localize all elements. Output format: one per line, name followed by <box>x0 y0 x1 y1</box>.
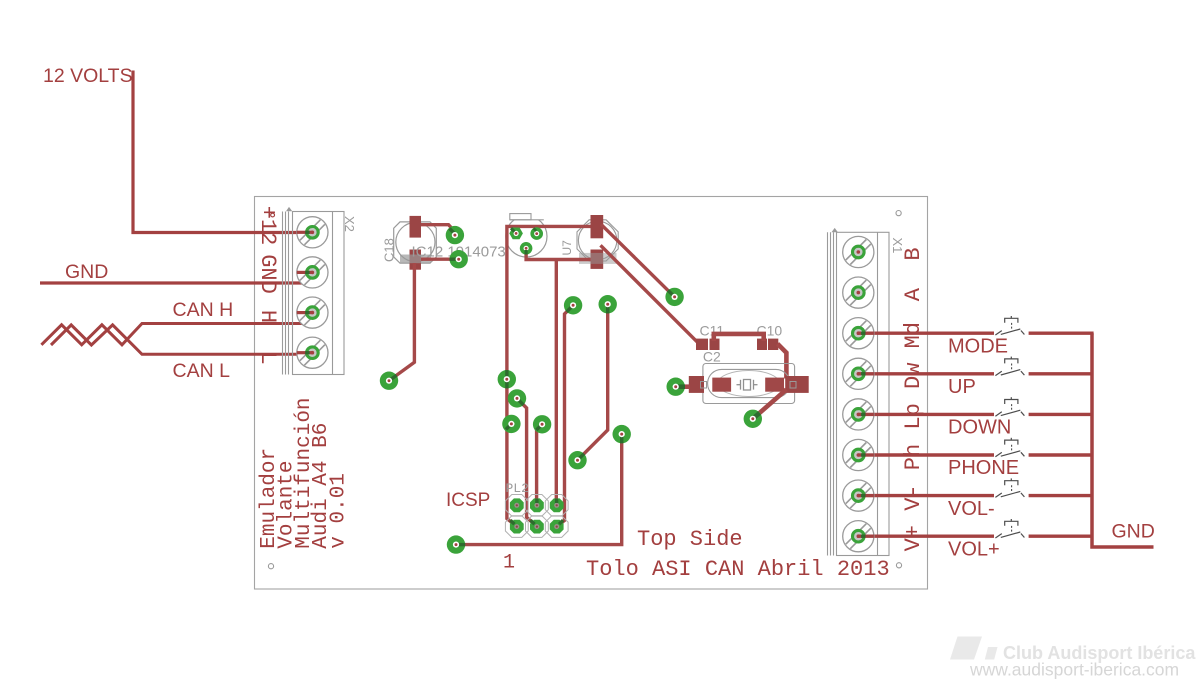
svg-text:C18: C18 <box>382 238 397 262</box>
svg-text:UP: UP <box>948 376 976 398</box>
svg-text:Md: Md <box>901 322 926 348</box>
transistor Q1 (1914073) outline <box>498 209 554 257</box>
svg-text:ICSP: ICSP <box>446 490 490 511</box>
wire MODE <box>858 332 994 335</box>
wire DOWN <box>858 413 994 416</box>
svg-text:B: B <box>901 247 926 260</box>
screw X2 pin 1 <box>297 217 328 248</box>
via V7 <box>564 296 582 314</box>
header PL2 (ICSP) <box>446 481 568 575</box>
screw X1 pin 6 <box>843 439 874 470</box>
via V11 <box>613 425 631 443</box>
trace via to ICSP bottom right <box>557 305 573 526</box>
trace U7 diagonal to C11 <box>601 245 698 342</box>
board outline <box>255 197 928 590</box>
trace Q1 bottom to U7 bottom <box>526 248 590 259</box>
trace via to C2 right diagonal <box>753 390 787 419</box>
terminal screws X2 <box>297 217 328 369</box>
hole bottom left <box>268 564 273 569</box>
svg-text:A: A <box>901 287 926 301</box>
svg-text:V+: V+ <box>901 525 926 551</box>
via V8 <box>599 295 617 313</box>
screw X2 pin 3 <box>297 297 328 328</box>
wire CAN H twisted <box>41 313 312 345</box>
screw X1 pin 8 <box>843 521 874 552</box>
wire VOL- <box>858 494 994 497</box>
switches <box>995 316 1024 538</box>
trace via down diagonal to pad <box>578 304 608 460</box>
wire UP <box>858 372 994 375</box>
via V6 <box>744 410 762 428</box>
switch MODE <box>995 316 1024 335</box>
svg-text:C2: C2 <box>703 349 721 365</box>
trace branch to ICSP pin <box>555 260 558 506</box>
screw X2 pin 4 <box>297 337 328 368</box>
svg-text:U7: U7 <box>560 240 574 256</box>
trace C10 to C2 <box>778 344 787 379</box>
pad hex <box>509 228 523 240</box>
svg-text:VOL+: VOL+ <box>948 538 1000 560</box>
trace via to ICSP bottom middle <box>517 398 537 526</box>
svg-text:Ph: Ph <box>901 444 926 470</box>
crystal C2 <box>689 349 809 404</box>
X1 notch <box>832 228 838 232</box>
pad round 2 <box>530 227 543 240</box>
svg-text:Tolo ASI CAN Abril 2013: Tolo ASI CAN Abril 2013 <box>586 557 890 582</box>
wire GND <box>40 273 312 283</box>
svg-text:Lp: Lp <box>901 403 926 429</box>
hole bottom right <box>896 563 901 568</box>
trace via down and across bottom <box>456 434 622 544</box>
terminal block X2 <box>283 212 345 375</box>
svg-text:CAN L: CAN L <box>173 360 231 382</box>
via V10 <box>568 451 586 469</box>
trace Q1 top horizontal to U7 <box>507 226 591 526</box>
svg-text:Dw: Dw <box>901 363 926 389</box>
via VA <box>498 370 516 388</box>
svg-text:GND: GND <box>1112 521 1155 543</box>
trace via to ICSP top middle <box>537 424 543 505</box>
wire VOL+ <box>858 535 994 538</box>
switch VOL+ <box>995 519 1024 538</box>
screw X1 pin 3 <box>843 318 874 349</box>
via V4 <box>665 288 683 306</box>
via V1 <box>446 226 464 244</box>
via VB <box>508 389 526 407</box>
X1 pin names <box>901 247 926 551</box>
via VD <box>533 415 551 433</box>
trace C18 top pad to via <box>421 225 455 235</box>
via VC <box>502 415 520 433</box>
Q1 pads <box>509 227 543 254</box>
switch PHONE <box>995 438 1024 457</box>
capacitor C10 <box>757 322 783 350</box>
switch UP <box>995 357 1024 376</box>
svg-text:GND: GND <box>255 254 280 294</box>
via V2 <box>450 250 468 268</box>
trace stub pad to vertical <box>507 424 512 429</box>
screw X1 pin 4 <box>843 358 874 389</box>
X2 notch <box>286 207 292 211</box>
svg-text:+12: +12 <box>255 206 280 246</box>
watermark logo <box>950 637 1196 680</box>
svg-text:PHONE: PHONE <box>948 457 1019 479</box>
svg-text:DOWN: DOWN <box>948 417 1011 439</box>
switch labels <box>948 335 1019 560</box>
via V3 <box>380 372 398 390</box>
switch VOL- <box>995 478 1024 497</box>
trace C18 down to via <box>389 263 414 381</box>
svg-text:CAN H: CAN H <box>173 299 234 321</box>
svg-text:PL2: PL2 <box>506 481 529 496</box>
capacitor C11 <box>696 322 724 350</box>
svg-text:X2: X2 <box>342 216 357 232</box>
svg-text:MODE: MODE <box>948 335 1008 357</box>
screw X1 pin 7 <box>843 480 874 511</box>
trace via to C2 left <box>676 384 690 389</box>
X2 pin names <box>255 206 280 365</box>
bus GND <box>1092 333 1154 547</box>
silkscreen text block rotated <box>258 397 351 548</box>
svg-text:VOL-: VOL- <box>948 498 995 520</box>
svg-text:L: L <box>255 351 280 364</box>
screw X2 pin 2 <box>297 257 328 288</box>
switch DOWN <box>995 397 1024 416</box>
via V5 <box>667 378 686 396</box>
wire PHONE <box>858 453 994 456</box>
switch wires rows <box>858 333 1093 536</box>
wire CAN L twisted <box>51 325 312 354</box>
svg-text:www.audisport-iberica.com: www.audisport-iberica.com <box>969 660 1179 680</box>
screw X1 pin 2 <box>843 277 874 308</box>
svg-text:Top Side: Top Side <box>637 527 743 552</box>
svg-text:1: 1 <box>503 552 515 575</box>
svg-text:V-: V- <box>901 484 926 510</box>
screw X1 pin 1 <box>843 236 874 267</box>
pad round 3 <box>520 242 533 255</box>
screw X1 pin 5 <box>843 399 874 430</box>
terminal block X1 <box>828 232 890 555</box>
via V12 <box>447 535 465 553</box>
wire 12V <box>133 71 312 233</box>
transistor U7 outline <box>560 215 618 269</box>
trace C11 to C10 <box>714 334 764 341</box>
svg-text:GND: GND <box>65 261 108 283</box>
vias (green pads) <box>380 226 762 554</box>
trace C18 bottom pad to via <box>421 258 459 261</box>
svg-text:v 0.01: v 0.01 <box>328 473 351 549</box>
trace U7 diagonal to via <box>601 224 675 297</box>
component C18 <box>382 216 437 270</box>
svg-text:12 VOLTS: 12 VOLTS <box>43 65 133 87</box>
hole top right <box>896 211 901 216</box>
svg-text:H: H <box>255 310 280 323</box>
